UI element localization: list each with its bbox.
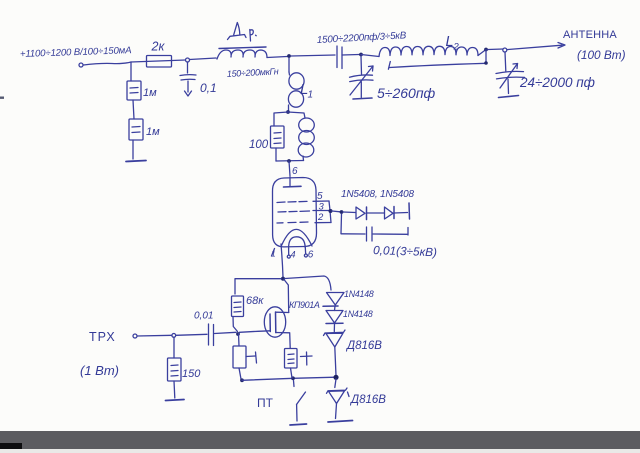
svg-text:L: L	[446, 34, 454, 50]
svg-text:3: 3	[319, 202, 325, 213]
svg-text:24÷2000 пф: 24÷2000 пф	[519, 75, 595, 90]
svg-text:1: 1	[271, 249, 276, 259]
svg-text:1: 1	[308, 90, 314, 101]
svg-text:6: 6	[292, 166, 298, 177]
svg-text:5: 5	[317, 191, 323, 202]
svg-text:6: 6	[308, 250, 314, 261]
svg-text:0,01(3÷5кВ): 0,01(3÷5кВ)	[373, 243, 437, 259]
svg-text:2: 2	[317, 212, 324, 223]
svg-text:Д816В: Д816В	[345, 340, 382, 352]
svg-text:ПТ: ПТ	[257, 396, 274, 410]
svg-text:Д816В: Д816В	[349, 394, 386, 406]
svg-text:4: 4	[291, 250, 296, 260]
svg-text:2к: 2к	[151, 40, 166, 54]
svg-text:0,01: 0,01	[194, 311, 213, 322]
svg-text:1м: 1м	[143, 87, 157, 99]
svg-text:АНТЕННА: АНТЕННА	[563, 29, 617, 41]
svg-text:2: 2	[453, 42, 460, 53]
svg-text:1N4148: 1N4148	[343, 309, 373, 319]
svg-text:150: 150	[182, 368, 201, 380]
svg-text:1N4148: 1N4148	[344, 289, 374, 299]
svg-text:1N5408, 1N5408: 1N5408, 1N5408	[341, 189, 414, 200]
svg-text:100: 100	[249, 139, 269, 151]
svg-text:ТРХ: ТРХ	[89, 330, 116, 344]
svg-text:0,1: 0,1	[200, 81, 217, 95]
svg-text:КП901А: КП901А	[289, 300, 320, 310]
svg-text:68к: 68к	[246, 295, 264, 307]
svg-text:1м: 1м	[146, 126, 160, 138]
svg-text:(100 Вт): (100 Вт)	[577, 48, 626, 62]
svg-text:(1 Вт): (1 Вт)	[80, 363, 119, 378]
svg-text:5÷260пф: 5÷260пф	[377, 85, 436, 101]
